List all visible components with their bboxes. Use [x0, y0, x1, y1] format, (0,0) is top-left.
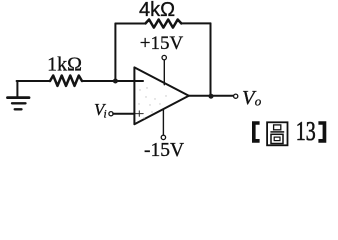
caption bracket 】 — [318, 121, 326, 143]
wire Vi to op-amp — [113, 113, 134, 115]
shading dots inside op-amp — [138, 87, 166, 118]
resistor R2 4kΩ zigzag — [146, 20, 182, 28]
wire -15V stem — [162, 110, 164, 136]
svg-text:4kΩ: 4kΩ — [139, 0, 175, 21]
svg-text:o: o — [255, 94, 262, 109]
resistor R1 1kΩ zigzag — [50, 76, 82, 86]
wire ground drop — [16, 81, 18, 96]
svg-text:1kΩ: 1kΩ — [47, 54, 82, 76]
svg-text:i: i — [104, 109, 107, 121]
wire R1 to op-amp inverting input (with minus overshoot inside) — [82, 80, 143, 82]
wire feedback right riser — [210, 23, 212, 96]
op-amp U1 triangle — [134, 67, 188, 124]
node junction feedback/inverting input — [113, 79, 118, 84]
wire top left to R2 — [115, 23, 145, 25]
wire input from ground corner to resistor R1 — [17, 80, 50, 82]
wire feedback left riser — [114, 24, 116, 82]
op-amp plus sign (non-inverting marker) — [136, 111, 144, 116]
wire R2 to top right corner — [181, 22, 210, 24]
terminal Vo open circle — [234, 94, 238, 98]
svg-text:-15V: -15V — [144, 140, 184, 161]
wire +15V stem — [163, 60, 165, 85]
terminal -15V open circle — [161, 135, 165, 139]
svg-text:13: 13 — [296, 117, 316, 147]
terminal +15V open circle — [162, 55, 166, 59]
ground — [8, 98, 30, 110]
wire output — [189, 95, 234, 97]
node junction output/feedback — [209, 94, 214, 99]
svg-text:+15V: +15V — [140, 33, 184, 54]
caption character 圖 (figure) — [267, 122, 287, 145]
terminal Vi open circle — [109, 112, 113, 116]
caption bracket 【 — [252, 121, 260, 143]
caption text 13 — [296, 117, 316, 147]
